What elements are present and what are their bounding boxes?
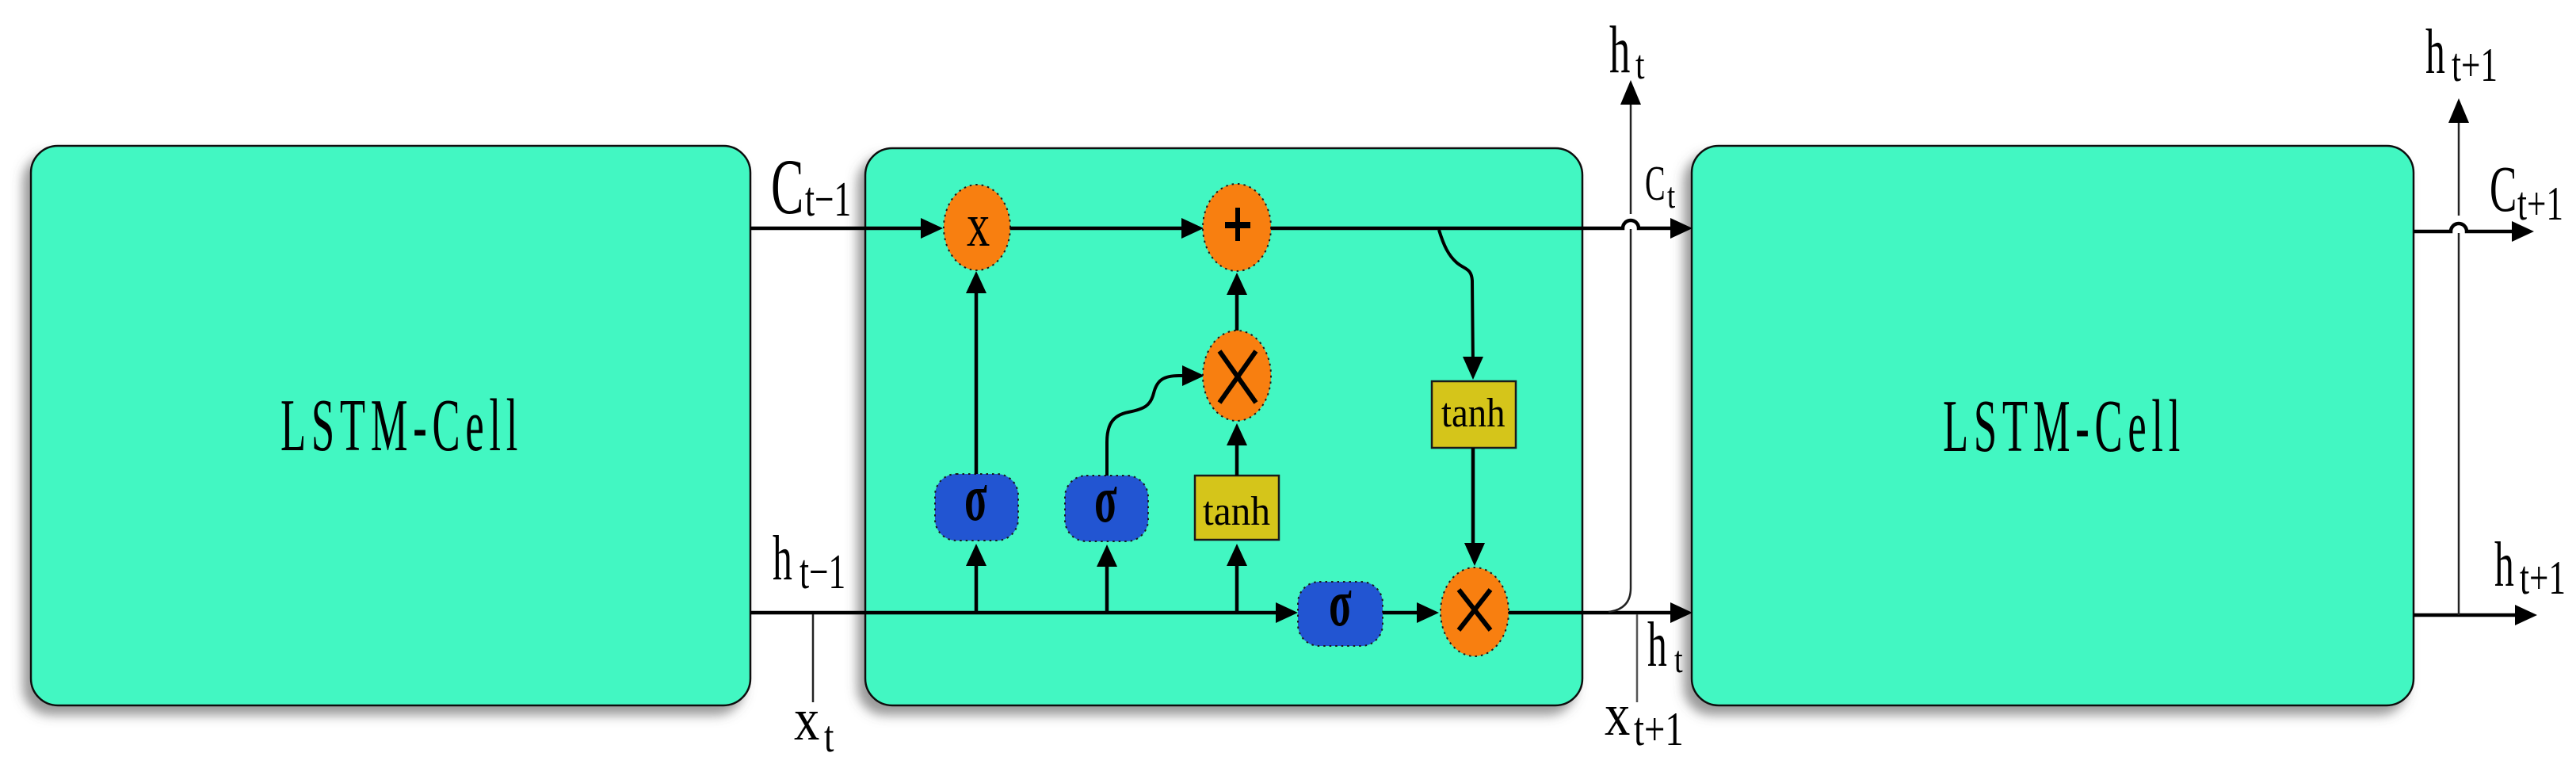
- left LSTM cell box: [31, 146, 750, 705]
- sigma gate 1: [935, 474, 1018, 541]
- wire sigma3 to output multiply: [1383, 611, 1418, 615]
- svg-text:t−1: t−1: [800, 544, 845, 599]
- svg-text:t+1: t+1: [2520, 552, 2566, 605]
- svg-text:C: C: [1645, 157, 1666, 212]
- wire h to tanh1: [1235, 555, 1239, 613]
- svg-text:t: t: [1667, 176, 1676, 216]
- wire h_t+1 output: [2414, 613, 2515, 617]
- svg-text:h: h: [1609, 13, 1630, 87]
- wire tanh2 to output multiply: [1471, 448, 1475, 554]
- svg-text:x: x: [794, 686, 819, 753]
- svg-text:t: t: [1635, 43, 1645, 88]
- wire input multiply to plus: [1235, 285, 1239, 331]
- wire h_t-1 main bottom line: [750, 611, 1276, 615]
- riser h_t+1 vertical: [2458, 233, 2460, 615]
- svg-text:C: C: [771, 143, 803, 231]
- tanh gate 1: [1195, 476, 1279, 540]
- svg-text:h: h: [2425, 17, 2445, 87]
- svg-text:t+1: t+1: [2452, 39, 2498, 92]
- wire h to sigma1: [975, 555, 979, 613]
- riser h_t curve and vertical: [1609, 229, 1631, 612]
- wire C_t+1 output with hop: [2414, 224, 2512, 231]
- plus glyph: [1225, 222, 1250, 228]
- wire C branch wavy to tanh2: [1439, 230, 1473, 368]
- svg-text:h: h: [2494, 530, 2514, 600]
- wire sigma1 to forget multiply: [975, 282, 979, 474]
- wire tanh1 to input multiply: [1235, 435, 1239, 476]
- wire plus to C_t with hop over riser: [1271, 220, 1670, 228]
- wire forget-multiply to plus: [1010, 227, 1182, 231]
- svg-text:t+1: t+1: [1634, 702, 1684, 755]
- svg-text:LSTM-Cell: LSTM-Cell: [1943, 385, 2185, 468]
- forget-gate multiply ellipse: [944, 185, 1010, 270]
- output multiply gate: [1441, 568, 1509, 656]
- svg-text:t: t: [1674, 639, 1683, 681]
- svg-text:tanh: tanh: [1203, 488, 1270, 533]
- sigma gate 3: [1298, 582, 1383, 646]
- right LSTM cell box: [1692, 146, 2414, 705]
- sigma gate 2: [1065, 476, 1148, 541]
- tanh gate 2: [1432, 381, 1516, 448]
- wire x_t input: [812, 614, 815, 702]
- svg-text:x: x: [1605, 682, 1630, 748]
- input multiply gate: [1203, 331, 1271, 421]
- wire sigma2 to input multiply (s-curve): [1107, 376, 1182, 476]
- svg-text:h: h: [1647, 610, 1667, 680]
- middle LSTM cell box: [865, 148, 1582, 705]
- plus gate ellipse: [1203, 184, 1271, 271]
- svg-text:t+1: t+1: [2517, 178, 2563, 231]
- svg-text:tanh: tanh: [1441, 390, 1506, 436]
- svg-text:σ: σ: [1329, 566, 1352, 640]
- svg-text:C: C: [2490, 151, 2517, 225]
- svg-text:h: h: [773, 524, 792, 594]
- svg-text:x: x: [967, 191, 990, 259]
- wire x_t+1 input: [1636, 614, 1639, 702]
- wire C_t-1 into middle cell: [750, 227, 922, 231]
- svg-text:t−1: t−1: [805, 171, 851, 227]
- wire h to sigma2: [1105, 556, 1109, 613]
- svg-text:LSTM-Cell: LSTM-Cell: [280, 384, 523, 467]
- wire h_t to right cell: [1509, 611, 1670, 615]
- svg-text:t: t: [824, 712, 834, 761]
